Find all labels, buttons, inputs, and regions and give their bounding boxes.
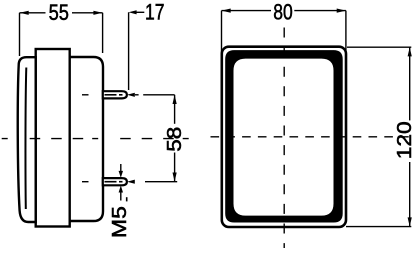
lens inner edge line (24, 68, 27, 210)
outer housing outline (rounded rectangle) (222, 47, 346, 227)
wire: main horizontal centerline of side view (2, 138, 189, 140)
dimension 17: arrow and leader (129, 10, 137, 14)
dimension 80: right extension line (345, 11, 347, 59)
housing back body (right section with rounded right corners) (40, 57, 103, 221)
stud M5 bottom (threaded stud, side view) (103, 178, 127, 185)
dimension 120: bottom extension line (346, 226, 411, 228)
centerline of top stud (82, 94, 89, 96)
dimension 80: left extension line (221, 11, 223, 58)
dimension M5: leader above bottom stud (120, 164, 122, 172)
svg-text:M5: M5 (108, 206, 131, 238)
svg-text:58: 58 (164, 127, 186, 152)
lens bezel: thick black rounded ring (225, 50, 343, 222)
dimension 55: left extension line (19, 13, 21, 56)
centerline of bottom stud (82, 181, 89, 183)
arrow at bottom stud tip (127, 180, 135, 184)
dimension M5: leader below bottom stud (119, 186, 123, 193)
housing center raised band (36, 49, 70, 227)
tick above M5 label (126, 197, 128, 201)
lens (left, side profile) (18, 57, 36, 222)
svg-text:80: 80 (273, 0, 293, 24)
arrow at top stud tip (127, 93, 135, 97)
dimension 55: dimension line (20, 12, 46, 14)
dimension 120: vertical dimension line with arrows (409, 47, 411, 120)
svg-text:55: 55 (49, 0, 69, 25)
dimension 58: vertical dimension line with arrows (174, 95, 176, 124)
vertical centerline of front view (283, 28, 285, 249)
horizontal centerline of front view (211, 136, 411, 138)
dimension 17: extension line down to stud tip (128, 12, 130, 90)
dimension 80: dimension line (222, 10, 272, 12)
svg-text:17: 17 (145, 0, 165, 24)
dimension 55: right extension line (102, 13, 104, 53)
dimension 58: top extension line from stud centerline (143, 94, 174, 96)
svg-text:120: 120 (394, 121, 416, 159)
dimension 58: bottom extension line from stud centerline (145, 181, 177, 183)
stud M5 top (threaded stud, side view) (103, 91, 127, 98)
dimension 120: top extension line (347, 46, 411, 48)
